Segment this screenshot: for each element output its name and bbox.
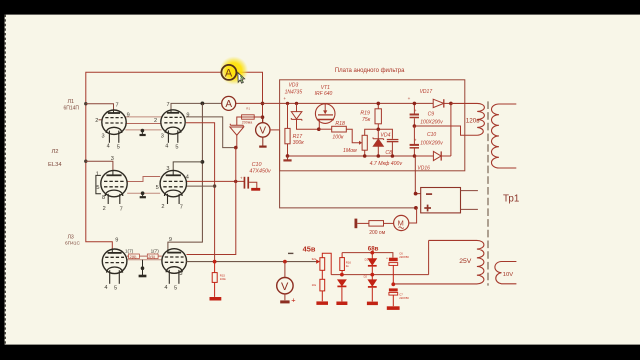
svg-text:3: 3 bbox=[111, 156, 114, 162]
svg-text:1(7): 1(7) bbox=[151, 249, 160, 254]
svg-text:3: 3 bbox=[102, 133, 105, 139]
svg-text:R18: R18 bbox=[335, 121, 345, 127]
node: R17 bottom / board ground rail bbox=[286, 154, 290, 158]
wire: inter-tube link row2 upper with jog bbox=[127, 177, 160, 182]
svg-text:5: 5 bbox=[175, 144, 178, 150]
node: pot bottom bbox=[363, 154, 367, 158]
winding primary bbox=[491, 104, 516, 168]
svg-text:5: 5 bbox=[96, 185, 99, 191]
terminal bar at motor branch bbox=[355, 219, 358, 229]
svg-text:220X50: 220X50 bbox=[399, 296, 409, 300]
wire: tube V2 pin7 lead to node A bbox=[171, 103, 222, 111]
svg-text:100к: 100к bbox=[332, 135, 344, 141]
winding 120в secondary bbox=[451, 103, 485, 135]
arrow: wiper into pot P1 bbox=[316, 259, 320, 263]
svg-text:M: M bbox=[398, 218, 404, 227]
node: zener anode junction bbox=[234, 146, 238, 150]
node: rail / R15 bbox=[213, 260, 217, 264]
svg-text:A: A bbox=[225, 68, 233, 80]
wire: tube V1 pin7 lead to rail bbox=[86, 104, 114, 111]
node: mid bus / tube V4 wire junction bbox=[213, 184, 216, 187]
svg-text:4: 4 bbox=[104, 285, 107, 291]
svg-text:10к: 10к bbox=[312, 283, 317, 287]
svg-text:1Мом: 1Мом bbox=[343, 148, 357, 154]
svg-text:VD3: VD3 bbox=[289, 82, 299, 88]
svg-text:75к: 75к bbox=[362, 117, 371, 123]
svg-text:4.7 Мкф 400v: 4.7 Мкф 400v bbox=[370, 161, 403, 167]
svg-text:VD17: VD17 bbox=[420, 89, 433, 95]
wire: lower bus to 25V winding branch bbox=[331, 274, 428, 276]
svg-text:1: 1 bbox=[96, 172, 99, 178]
node: top rail / A1 drop junction bbox=[261, 102, 265, 106]
wire: 25V top lead down to 68в network bbox=[428, 240, 430, 274]
wire: voltmeter V1 right lead bbox=[270, 129, 280, 131]
svg-text:200 ом: 200 ом bbox=[369, 230, 386, 236]
svg-text:5: 5 bbox=[174, 286, 177, 292]
svg-text:4: 4 bbox=[107, 144, 110, 150]
motor M bbox=[394, 215, 409, 230]
wire: zener node down mid vertical to tube V6 bbox=[187, 148, 236, 255]
svg-text:7: 7 bbox=[120, 206, 123, 212]
wire: 45в rail from tube V6 to potentiometer wiper bbox=[187, 261, 317, 263]
wire: branch from black bus to tube V4 top (pin3) bbox=[173, 162, 202, 171]
ground: C10 ground bbox=[251, 188, 260, 191]
ground: row1 cathode ground bbox=[140, 130, 146, 135]
svg-text:100X200v: 100X200v bbox=[420, 141, 443, 147]
svg-text:2: 2 bbox=[95, 118, 98, 124]
tube V5 (6П41С) bbox=[102, 249, 127, 284]
wire: inter-tube link row1 middle bbox=[125, 123, 161, 125]
resistor R16 3к bbox=[340, 253, 345, 275]
wire: tube V4 anode to C10 capacitor bbox=[187, 180, 244, 182]
ground: D2 ground bbox=[367, 302, 378, 306]
wire: inter-tube link row2 cathode bbox=[127, 192, 160, 194]
winding 10V bbox=[495, 262, 517, 284]
svg-text:1(7): 1(7) bbox=[125, 249, 134, 254]
svg-text:100X200v: 100X200v bbox=[420, 119, 443, 125]
svg-text:С10: С10 bbox=[427, 132, 436, 138]
svg-text:5: 5 bbox=[156, 185, 159, 191]
wire: black vertical bus from node A down to tube V6 pin9 bbox=[168, 103, 203, 249]
wire: R18 to potentiometer wiper with arrow bbox=[346, 129, 360, 143]
svg-text:+: + bbox=[283, 96, 286, 101]
tube V4 (EL34) bbox=[160, 170, 186, 204]
node: R16 bottom junction bbox=[340, 273, 344, 277]
ground: P1 ground bbox=[316, 301, 328, 305]
zener diode at fuse bbox=[230, 124, 244, 148]
svg-text:3: 3 bbox=[161, 133, 164, 139]
ammeter A2 bbox=[222, 96, 236, 110]
svg-text:R19: R19 bbox=[360, 110, 370, 116]
voltmeter V1 bbox=[262, 117, 264, 145]
svg-text:Тр1: Тр1 bbox=[503, 194, 519, 205]
svg-text:VT1: VT1 bbox=[321, 85, 330, 91]
node: C10 bottom / VD16 / minus branch bbox=[413, 154, 417, 158]
svg-text:4: 4 bbox=[164, 285, 167, 291]
node: VD17 cathode / winding top bbox=[449, 102, 453, 106]
label minus bbox=[288, 252, 293, 254]
wire: inter-tube link row3 lower bbox=[127, 259, 162, 261]
node: rectifier minus input bbox=[414, 192, 418, 196]
svg-text:V: V bbox=[259, 126, 266, 137]
wire: motor to plus node bbox=[409, 208, 417, 223]
wire: ammeter A1 to vertical drop into top rail bbox=[236, 72, 263, 123]
ground: D3 ground bbox=[336, 302, 347, 306]
pin box 2(6) left bbox=[129, 254, 140, 259]
wire: board ground rail bbox=[288, 155, 415, 157]
resistor R15 under rail bbox=[212, 262, 217, 297]
pin labels row 3 bbox=[104, 237, 182, 291]
svg-text:+: + bbox=[386, 257, 388, 261]
wire: tube V2 grid to mid vertical bus bbox=[186, 123, 215, 262]
wire: pot top to R19 bottom to C8 top bbox=[365, 129, 393, 139]
winding 25V bbox=[393, 240, 484, 284]
wire: top rail A2 segment bbox=[236, 102, 434, 104]
svg-text:+: + bbox=[408, 96, 411, 101]
wire: inter-tube link row1 upper bbox=[125, 116, 161, 118]
potentiometer P1 32к bbox=[320, 253, 331, 301]
svg-text:Плата анодного фильтра: Плата анодного фильтра bbox=[335, 68, 405, 74]
wire: VD17 node down to VD16 bbox=[450, 103, 452, 156]
node: C8 bottom bbox=[391, 154, 395, 158]
node: 68в junction bbox=[370, 251, 374, 255]
svg-text:2: 2 bbox=[154, 118, 157, 124]
node: VD3/R18/source junction bbox=[317, 127, 321, 131]
svg-text:25V: 25V bbox=[459, 258, 472, 265]
rectifier block bbox=[421, 188, 461, 213]
wire: terminal to resistor 200ом bbox=[357, 222, 369, 224]
svg-text:VD4: VD4 bbox=[380, 133, 390, 139]
node: D1/D2 junction bbox=[370, 273, 374, 277]
svg-text:200ма: 200ма bbox=[242, 121, 252, 125]
svg-text:+: + bbox=[240, 176, 243, 181]
svg-text:С10: С10 bbox=[252, 162, 262, 168]
svg-text:7: 7 bbox=[167, 102, 170, 108]
node: rail/C9 bbox=[413, 102, 417, 106]
svg-text:5: 5 bbox=[117, 144, 120, 150]
ragged film edge left bbox=[4, 15, 6, 345]
svg-text:A: A bbox=[225, 99, 232, 110]
node: C6/C7 junction bbox=[391, 282, 395, 286]
svg-text:2: 2 bbox=[161, 204, 164, 210]
svg-text:45в: 45в bbox=[303, 244, 316, 253]
svg-text:3: 3 bbox=[179, 271, 182, 277]
svg-text:2(6): 2(6) bbox=[130, 255, 137, 259]
svg-text:4: 4 bbox=[186, 174, 189, 180]
svg-text:6П41С: 6П41С bbox=[65, 240, 80, 246]
pin labels row 2 bbox=[96, 156, 189, 212]
svg-text:2(6): 2(6) bbox=[148, 255, 155, 259]
svg-text:4: 4 bbox=[165, 144, 168, 150]
svg-text:V: V bbox=[281, 281, 289, 293]
wire: tube V3 pin3 lead to rail bbox=[86, 161, 113, 170]
svg-text:100к: 100к bbox=[220, 277, 227, 281]
svg-text:2: 2 bbox=[103, 206, 106, 212]
potentiometer 1Мом bbox=[362, 135, 367, 150]
node: branch to tube V4 pin3 bbox=[201, 160, 205, 164]
svg-text:7: 7 bbox=[180, 205, 183, 211]
ground: R15 ground bbox=[210, 297, 222, 301]
wire: left rail from ammeter A1 wire down to tube V5 pin9 bbox=[86, 72, 222, 249]
wire: rectifier output leads bbox=[461, 191, 478, 210]
ground: V2 ground bbox=[280, 300, 289, 303]
resistor 200 ом bbox=[369, 221, 384, 227]
resistor R17 300k bbox=[287, 103, 289, 155]
svg-text:1N4735: 1N4735 bbox=[285, 90, 303, 96]
svg-text:Л2: Л2 bbox=[52, 149, 59, 155]
svg-text:8: 8 bbox=[102, 195, 105, 201]
svg-text:120в: 120в bbox=[466, 117, 481, 124]
wire: tube V4 lower wire to mid bus bbox=[187, 185, 215, 187]
node: R19 bottom / VD4 top bbox=[377, 128, 381, 132]
node: rail / tube V1 pin7 junction bbox=[84, 102, 87, 105]
wire: resistor to motor bbox=[384, 222, 394, 224]
svg-text:6П14П: 6П14П bbox=[64, 106, 80, 112]
node A: black junction above tubes bbox=[201, 102, 205, 106]
fuse R1 200ма bbox=[237, 117, 263, 125]
wire: tube V1 pin2 stub bbox=[99, 119, 103, 121]
tube V3 (EL34) bbox=[96, 170, 127, 204]
svg-text:3: 3 bbox=[166, 166, 169, 172]
node: C9/C10 midpoint bbox=[413, 124, 417, 128]
ground: voltmeter V1 ground bbox=[259, 146, 266, 148]
svg-text:3: 3 bbox=[120, 269, 123, 275]
board outline: Плата анодного фильтра bbox=[280, 80, 465, 171]
resistor R18 100k bbox=[319, 128, 332, 130]
diode D3 under R16 bbox=[337, 280, 346, 302]
svg-text:300к: 300к bbox=[293, 140, 305, 146]
svg-text:9: 9 bbox=[169, 237, 172, 243]
ground: row2 cathode ground bbox=[140, 193, 146, 197]
svg-text:220X50: 220X50 bbox=[399, 255, 409, 259]
capacitor C7 220X50 bbox=[389, 288, 398, 291]
pin labels row 1 bbox=[95, 102, 189, 150]
svg-text:47X450v: 47X450v bbox=[249, 168, 271, 174]
svg-text:Л1: Л1 bbox=[68, 99, 75, 105]
tube V6 (6П41С) bbox=[162, 249, 187, 284]
node: rail/VD3 bbox=[295, 102, 298, 105]
svg-text:IRF 640: IRF 640 bbox=[315, 91, 333, 97]
pin box 2(6) right bbox=[147, 254, 158, 259]
wire: V1 branch down and across to rectifier plus input bbox=[280, 130, 416, 208]
svg-text:D2: D2 bbox=[364, 275, 368, 279]
svg-text:D1: D1 bbox=[365, 257, 369, 261]
svg-text:С9: С9 bbox=[428, 112, 435, 118]
transformer core dashed line bbox=[487, 101, 489, 285]
svg-text:5: 5 bbox=[114, 286, 117, 292]
wire: inter-tube link row3 upper bbox=[127, 255, 162, 257]
ground: board internal ground bbox=[283, 156, 291, 161]
wire: inter-tube link row1 cathode bbox=[125, 129, 161, 131]
node: rail/R19 bbox=[377, 102, 381, 106]
voltmeter V2 bbox=[284, 262, 286, 278]
wire: tube V2 pin9 to zener anode node bbox=[186, 117, 234, 148]
node: rail / tube V3 pin3 junction bbox=[84, 160, 87, 163]
green sparkle by cursor bbox=[240, 76, 243, 82]
wire: minus branch from C10 node to rectifier bbox=[415, 156, 420, 194]
tube V1 (6П14П) bbox=[102, 110, 126, 143]
node: rail/R17 bbox=[286, 102, 289, 105]
ammeter A1 bbox=[221, 65, 236, 80]
svg-text:VD16: VD16 bbox=[417, 166, 430, 172]
svg-text:10V: 10V bbox=[503, 272, 513, 278]
node: junction on anode wire / mid vertical bbox=[234, 180, 237, 183]
svg-text:9: 9 bbox=[115, 238, 118, 244]
node: rectifier plus input bbox=[414, 206, 418, 210]
node: rail / voltmeter V2 bbox=[283, 260, 287, 264]
wire: C9/C10 midpoint out to 120v winding bottom bbox=[414, 126, 477, 135]
svg-text:EL34: EL34 bbox=[48, 162, 62, 168]
svg-text:9: 9 bbox=[186, 112, 189, 118]
tube V2 (6П14П) bbox=[161, 110, 185, 143]
ground: row3 cathode ground bbox=[139, 260, 147, 276]
svg-text:32к: 32к bbox=[312, 257, 317, 261]
mouse cursor bbox=[238, 73, 245, 84]
svg-text:9: 9 bbox=[127, 112, 130, 118]
ground: C7 ground bbox=[387, 306, 400, 310]
svg-text:7: 7 bbox=[116, 103, 119, 109]
node: VD4 bottom bbox=[377, 154, 381, 158]
node: fuse / voltmeter junction bbox=[261, 115, 265, 119]
svg-text:R1: R1 bbox=[246, 106, 250, 110]
wire: 68в rail bbox=[342, 253, 393, 258]
svg-text:Л3: Л3 bbox=[68, 235, 74, 241]
svg-text:+: + bbox=[291, 296, 295, 305]
